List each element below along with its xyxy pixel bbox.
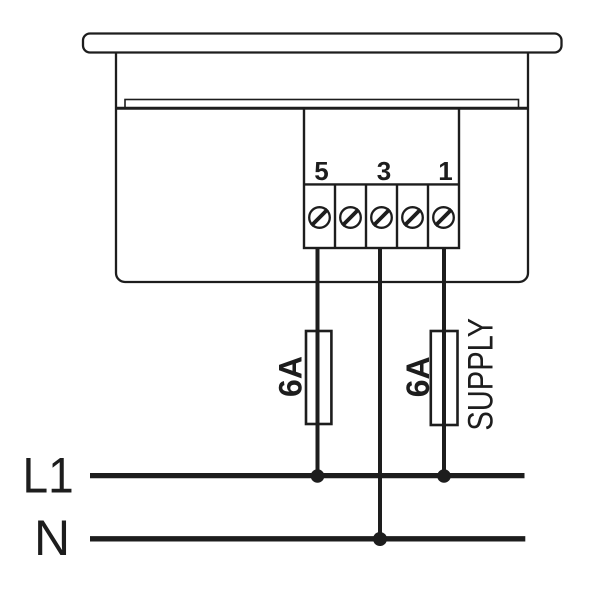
N line xyxy=(90,536,525,541)
pcb baseline xyxy=(116,107,528,110)
svg-text:N: N xyxy=(34,510,70,566)
terminal cell divider c xyxy=(396,184,398,248)
wire from terminal 5 xyxy=(316,248,320,476)
fuse F1 xyxy=(306,331,331,424)
svg-text:5: 5 xyxy=(314,156,328,186)
screw terminal 2 xyxy=(402,207,423,228)
node junction N-wire3 xyxy=(373,532,387,546)
svg-text:SUPPLY: SUPPLY xyxy=(461,318,500,431)
screw terminal 3 xyxy=(371,207,392,228)
L1 line xyxy=(90,473,525,478)
screw terminal 5 xyxy=(309,207,330,228)
terminal cell divider a xyxy=(334,184,336,248)
node junction L1-wire1 xyxy=(437,469,451,483)
terminal block xyxy=(304,109,459,249)
terminal row divider xyxy=(304,183,459,185)
wire from terminal 3 xyxy=(378,248,382,539)
svg-text:1: 1 xyxy=(438,156,452,186)
screw terminal 1 xyxy=(433,207,454,228)
bezel flange xyxy=(83,34,562,53)
svg-text:3: 3 xyxy=(377,156,391,186)
wire from terminal 1 xyxy=(442,248,446,476)
screw terminal 4 xyxy=(340,207,361,228)
fuse F2 xyxy=(431,331,458,425)
node junction L1-wire5 xyxy=(311,469,325,483)
svg-text:6A: 6A xyxy=(273,356,309,397)
svg-text:6A: 6A xyxy=(400,356,436,397)
terminal cell divider b xyxy=(365,184,367,248)
meter body xyxy=(116,44,528,282)
pcb strip xyxy=(125,100,519,109)
svg-text:L1: L1 xyxy=(23,449,74,504)
terminal cell divider d xyxy=(427,184,429,248)
